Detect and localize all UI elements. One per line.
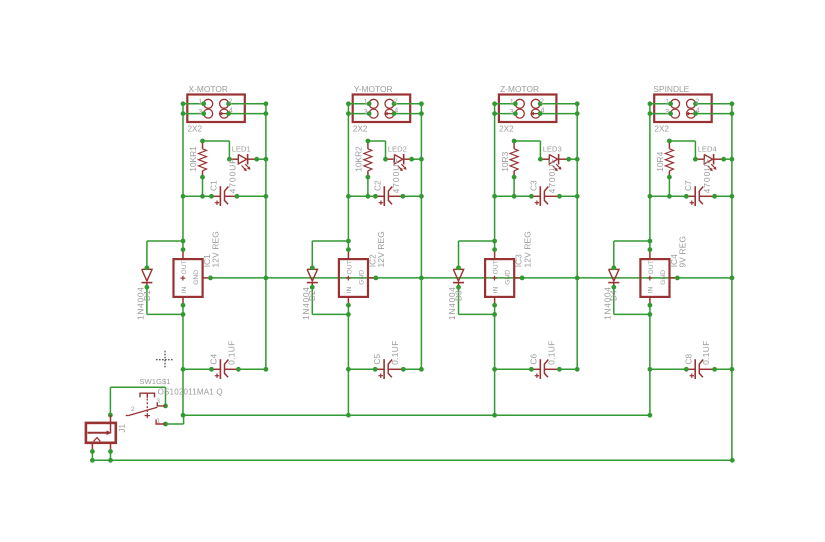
svg-text:3: 3: [510, 107, 514, 116]
svg-text:D2: D2: [307, 290, 317, 301]
svg-text:D1: D1: [142, 290, 152, 301]
svg-text:12V REG: 12V REG: [211, 231, 221, 267]
svg-text:C2: C2: [372, 180, 382, 191]
svg-text:10R4: 10R4: [655, 151, 665, 171]
svg-text:Z-MOTOR: Z-MOTOR: [500, 84, 539, 94]
svg-text:3: 3: [364, 107, 368, 116]
svg-text:4: 4: [394, 106, 398, 115]
svg-text:GND: GND: [358, 270, 365, 285]
svg-text:2X2: 2X2: [353, 125, 368, 134]
svg-text:1: 1: [364, 97, 368, 106]
svg-text:C6: C6: [528, 354, 538, 365]
svg-text:C3: C3: [528, 180, 538, 191]
svg-text:4: 4: [541, 106, 545, 115]
svg-text:SW1G$1: SW1G$1: [139, 377, 170, 386]
svg-text:2X2: 2X2: [654, 125, 669, 134]
svg-text:4700UF: 4700UF: [702, 158, 712, 194]
svg-text:2: 2: [394, 97, 398, 106]
svg-text:9V REG: 9V REG: [678, 236, 688, 268]
svg-text:2: 2: [131, 406, 135, 413]
svg-text:J1: J1: [118, 424, 127, 433]
svg-text:2X2: 2X2: [188, 125, 203, 134]
svg-text:X-MOTOR: X-MOTOR: [189, 84, 228, 94]
svg-text:3: 3: [198, 107, 202, 116]
svg-text:OUT: OUT: [493, 260, 500, 274]
svg-text:2: 2: [228, 97, 232, 106]
svg-text:C4: C4: [209, 354, 219, 365]
svg-text:4700UF: 4700UF: [391, 158, 401, 194]
svg-text:1: 1: [156, 418, 160, 425]
svg-text:C8: C8: [683, 354, 693, 365]
svg-text:GND: GND: [193, 270, 200, 285]
svg-text:IN: IN: [346, 286, 353, 293]
svg-text:LED4: LED4: [698, 145, 717, 154]
svg-text:3: 3: [156, 398, 160, 405]
svg-text:4: 4: [696, 106, 700, 115]
svg-text:4: 4: [229, 106, 233, 115]
svg-text:0.1UF: 0.1UF: [226, 340, 236, 365]
svg-text:10KR2: 10KR2: [354, 146, 364, 172]
svg-text:10R3: 10R3: [500, 151, 510, 171]
svg-text:0.1UF: 0.1UF: [390, 340, 400, 365]
svg-text:OUT: OUT: [648, 260, 655, 274]
svg-text:GND: GND: [505, 270, 512, 285]
svg-text:D4: D4: [609, 290, 619, 301]
svg-text:0.1UF: 0.1UF: [701, 340, 711, 365]
svg-text:C1: C1: [208, 180, 218, 191]
svg-text:C7: C7: [683, 180, 693, 191]
svg-text:1: 1: [665, 97, 669, 106]
svg-text:Y-MOTOR: Y-MOTOR: [354, 84, 393, 94]
svg-text:4700UF: 4700UF: [547, 158, 557, 194]
svg-text:2: 2: [540, 97, 544, 106]
svg-text:SPINDLE: SPINDLE: [653, 84, 689, 94]
svg-text:C5: C5: [372, 354, 382, 365]
svg-text:2: 2: [695, 97, 699, 106]
svg-text:1: 1: [510, 97, 514, 106]
svg-text:IN: IN: [492, 286, 499, 293]
svg-text:0.1UF: 0.1UF: [546, 340, 556, 365]
svg-text:OS102011MA1 Q: OS102011MA1 Q: [158, 387, 223, 396]
svg-text:4700UF: 4700UF: [227, 158, 237, 194]
svg-text:IN: IN: [181, 286, 188, 293]
svg-text:IN: IN: [648, 286, 655, 293]
svg-text:12V REG: 12V REG: [376, 231, 386, 267]
svg-text:10KR1: 10KR1: [188, 146, 198, 172]
svg-text:LED3: LED3: [543, 145, 562, 154]
svg-text:D3: D3: [453, 290, 463, 301]
svg-text:LED2: LED2: [388, 145, 407, 154]
svg-text:OUT: OUT: [181, 260, 188, 274]
svg-text:LED1: LED1: [232, 145, 251, 154]
svg-text:1: 1: [198, 97, 202, 106]
svg-text:2X2: 2X2: [499, 125, 514, 134]
svg-text:3: 3: [665, 107, 669, 116]
svg-text:GND: GND: [660, 270, 667, 285]
svg-text:12V REG: 12V REG: [522, 231, 532, 267]
svg-text:OUT: OUT: [346, 260, 353, 274]
